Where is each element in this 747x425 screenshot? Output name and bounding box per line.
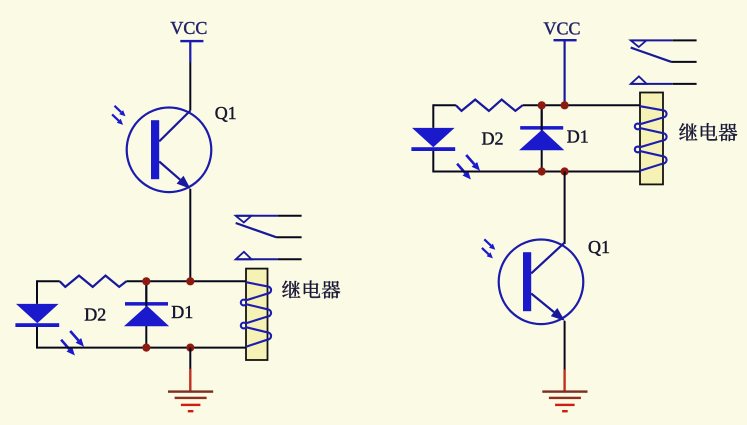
wire Q1 emitter to ground (right) <box>564 321 566 370</box>
label 继电器 (right) <box>679 123 737 141</box>
light arrows into Q1 (right) <box>482 239 495 258</box>
light emission arrows of D2 (left) <box>61 331 84 356</box>
label D2 (right) <box>482 129 504 149</box>
wire over D1 bar (left) <box>145 281 147 306</box>
wire top bus left corner (right) <box>433 104 456 106</box>
wire node to ground (left) <box>189 348 191 370</box>
wire resistor to relay (right) <box>523 104 640 106</box>
light arrows into Q1 (left) <box>112 106 125 125</box>
wire Q1 emitter to node (left) <box>189 189 191 281</box>
node junction D1-top (left) <box>142 277 150 285</box>
label Q1 (right) <box>588 237 610 257</box>
wire over D1 bar (right) <box>541 105 543 130</box>
node junction D1-top (right) <box>538 101 546 109</box>
svg-text:VCC: VCC <box>544 19 581 39</box>
VCC power bar symbol (right) <box>554 39 577 105</box>
label Q1 (left) <box>215 103 237 123</box>
node junction D1-bottom (left) <box>142 344 150 352</box>
ground (left) <box>168 369 213 413</box>
diode D1 (left) <box>124 302 169 326</box>
node junction D1-bottom (right) <box>538 167 546 175</box>
svg-text:Q1: Q1 <box>215 103 237 123</box>
node junction main-top (left) <box>186 277 194 285</box>
power label VCC (left) <box>170 18 207 38</box>
label D1 (left) <box>171 302 193 322</box>
node junction main-bottom (left) <box>186 344 194 352</box>
transistor Q1 phototransistor (right) <box>499 239 584 324</box>
svg-text:D1: D1 <box>171 302 193 322</box>
LED D2 (right) <box>411 128 455 151</box>
label D1 (right) <box>567 127 589 147</box>
label 继电器 (left) <box>282 281 340 299</box>
label D2 (left) <box>84 304 106 324</box>
wire LED D2 cathode to bottom bus (right) <box>432 151 434 173</box>
svg-text:D2: D2 <box>84 304 106 324</box>
svg-text:D2: D2 <box>482 129 504 149</box>
wire LED D2 cathode to bottom bus (left) <box>36 327 38 349</box>
wire resistor to relay (left) <box>126 280 246 282</box>
relay contacts switch (left) <box>236 216 302 259</box>
node junction main-top (right) <box>561 101 569 109</box>
wire diode D1 branch (left) <box>145 281 147 347</box>
diode D1 (right) <box>519 126 564 150</box>
wire bottom bus (left) <box>37 347 246 349</box>
wire to LED D2 anode (left) <box>36 280 38 304</box>
relay contacts switch (right) <box>631 40 697 84</box>
light emission arrows of D2 (right) <box>457 155 480 180</box>
svg-text:Q1: Q1 <box>588 237 610 257</box>
wire bottom bus to Q1 collector (right) <box>564 172 566 245</box>
wire VCC to Q1 collector (left) <box>189 63 191 111</box>
wire diode D1 branch (right) <box>541 105 543 171</box>
wire to LED D2 anode (right) <box>432 104 434 128</box>
ground (right) <box>542 370 587 413</box>
power label VCC (right) <box>544 19 581 39</box>
wire top bus left corner (left) <box>37 280 60 282</box>
relay coil 继电器 (left) <box>241 269 271 360</box>
resistor R (right) <box>456 100 523 111</box>
wire bottom bus (right) <box>433 171 640 173</box>
LED D2 (left) <box>15 304 59 327</box>
relay coil 继电器 (right) <box>635 93 667 185</box>
resistor R (left) <box>60 276 127 287</box>
VCC power bar symbol (left) <box>180 40 203 63</box>
node junction main-bottom (right) <box>561 167 569 175</box>
svg-text:VCC: VCC <box>170 18 207 38</box>
svg-text:D1: D1 <box>567 127 589 147</box>
transistor Q1 phototransistor (left) <box>127 108 212 193</box>
